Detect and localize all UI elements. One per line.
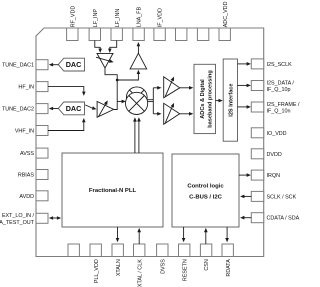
wire I2S to I2S_FRAME pin [238,105,251,109]
wire branch to VGA2 [153,112,161,116]
block Fractional-N PLL [62,153,163,227]
pin bottom PLL_VDD [90,244,101,283]
svg-text:DVDD: DVDD [267,152,282,158]
wire DAC1 to TUNE_DAC1 pin [49,63,59,67]
svg-text:I2S Interface: I2S Interface [229,83,235,116]
amp VGA2 Q-channel variable-gain [164,103,180,124]
pin left TUNE_DAC2 [2,104,48,114]
svg-text:Fractional-N PLL: Fractional-N PLL [89,188,137,194]
pin left RBIAS [18,170,48,180]
svg-text:RF_VDD: RF_VDD [70,6,76,28]
pin right SCLK / SCK [251,191,296,201]
DAC 1 block [58,58,84,71]
pin top LF_INP [89,9,100,41]
wire control to RDATA pin [225,227,229,242]
pin right IRQN [251,170,280,180]
svg-text:TUNE_DAC1: TUNE_DAC1 [2,63,34,69]
svg-text:IF_VDD: IF_VDD [158,8,164,27]
wire branch to VGA1 [153,86,161,90]
wire A2 output to node B [114,80,118,110]
svg-text:AVDD: AVDD [19,194,34,200]
wire VHF_IN to switch contact [48,118,86,131]
wire PLL to XTALN pin [116,227,120,242]
svg-text:CSN: CSN [204,259,210,270]
wire SCLK/SCK pin to control [240,195,251,199]
svg-text:DAC: DAC [66,104,82,113]
svg-text:HF_IN: HF_IN [18,85,34,91]
mixer X2 (Q-branch circle) [126,92,148,114]
pin bottom DVSS [157,244,168,274]
pin right IO_VDD [251,128,286,138]
wire control to RESETN pin [182,227,186,242]
svg-text:ADC_VDD: ADC_VDD [223,1,229,27]
pin left VHF_IN [15,126,48,136]
svg-text:baseband processing: baseband processing [208,70,214,128]
block Control logic C-BUS/I2C [172,154,239,227]
pin top unlabeled [197,28,208,41]
svg-text:PLL_VDD: PLL_VDD [94,259,100,283]
pin bottom XTAL / CLK [134,244,145,287]
wire node A to LNA input [117,70,140,80]
svg-text:I2S_FRAME /: I2S_FRAME / [267,102,300,108]
svg-text:Control logic: Control logic [187,183,224,189]
wire LNA output to LNA_FB pin [137,42,141,53]
block ADCs & Digital baseband processing [194,64,216,133]
svg-text:AVSS: AVSS [20,151,34,157]
pin bottom XTALN [112,244,123,276]
pin bottom RESETN [179,244,190,281]
wire CSN pin to control [204,228,208,244]
svg-text:ADCs & Digital: ADCs & Digital [200,79,206,119]
svg-text:TUNE_DAC2: TUNE_DAC2 [2,107,34,113]
switch S1 arm [85,105,96,110]
svg-text:C-BUS / I2C: C-BUS / I2C [189,195,222,201]
svg-text:RBIAS: RBIAS [18,172,35,178]
pin top LNA_FB [133,7,144,41]
pin right I2S_DATA / IF_Q_10p [251,80,294,93]
mixer X1 (I-branch circle) [126,87,147,108]
wire VGA1 to ADC block [180,86,194,90]
svg-text:LF_INP: LF_INP [93,9,99,28]
wire node B to mixer input [117,100,126,104]
wire CDATA/SDA pin to control [240,216,251,220]
wire PLL LO-Q to mixer [137,117,141,153]
pin right CDATA / SDA [251,213,299,223]
pin top LF_INN [111,9,122,41]
svg-text:DAC: DAC [66,60,82,69]
svg-text:I2S_DATA /: I2S_DATA / [267,80,295,86]
wire A1 output to node A [105,68,117,80]
pin right I2S_SCLK [251,59,292,69]
wire I2S to I2S_SCLK pin [238,62,251,66]
svg-text:IF_Q_10p: IF_Q_10p [267,87,291,93]
pin bottom RDATA [222,244,233,277]
pin right I2S_FRAME / IF_Q_10n [251,102,300,115]
amp A1 LF variable-gain (inverted triangle) [96,53,114,68]
amp LNA (triangle up) [130,53,147,69]
wire EXT_LO_IN to PLL (bidirectional) [49,216,61,220]
pin top unlabeled [176,28,187,41]
wire ADC block to I2S interface [216,99,223,103]
wire mixer Q output stub [148,101,154,103]
pin left EXT_LO_IN / A_TEST_OUT [0,213,48,226]
wire DAC2 to TUNE_DAC2 pin [49,107,59,111]
wire LF_INP to amp A1 [95,41,102,53]
svg-text:CDATA / SDA: CDATA / SDA [267,216,300,222]
pin top ADC_VDD [219,1,230,40]
wire HF_IN to switch contact [48,87,86,96]
IC package outline U1 [36,28,264,257]
DAC 2 block [58,102,84,115]
pin top RF_VDD [67,6,78,41]
svg-text:IF_Q_10n: IF_Q_10n [267,109,291,115]
pin top IF_VDD [154,8,165,40]
wire control to IRQN pin [239,173,251,177]
svg-text:I2S_SCLK: I2S_SCLK [267,62,293,68]
pin bottom unlabeled [68,244,79,257]
amp VGA1 I-channel variable-gain [164,77,180,98]
svg-text:RDATA: RDATA [226,259,232,277]
wire XTAL/CLK pin to PLL [137,228,141,244]
pin bottom CSN [200,244,211,271]
wire PLL LO-I to mixer [133,117,137,153]
svg-text:EXT_LO_IN /: EXT_LO_IN / [2,213,35,219]
wire mixer I output stub [147,99,153,101]
svg-text:XTALN: XTALN [116,259,122,276]
wire LF_INN to amp A1 [108,41,117,53]
svg-text:DVSS: DVSS [160,259,166,274]
svg-text:XTAL / CLK: XTAL / CLK [137,259,143,287]
svg-text:SCLK / SCK: SCLK / SCK [267,194,297,200]
pin left AVDD [19,191,48,201]
pin left AVSS [20,148,48,158]
svg-text:A_TEST_OUT: A_TEST_OUT [0,220,35,226]
svg-text:RESETN: RESETN [182,259,188,281]
svg-text:VHF_IN: VHF_IN [15,128,34,134]
svg-text:IRQN: IRQN [267,173,281,179]
node A junction dot [116,79,119,82]
pin right DVDD [251,149,282,159]
wire mixer output branch [152,88,154,114]
pin left TUNE_DAC1 [2,60,48,70]
svg-text:LNA_FB: LNA_FB [137,7,143,28]
svg-text:LF_INN: LF_INN [115,9,121,28]
pin left HF_IN [18,82,48,92]
wire I2S to I2S_DATA pin [238,84,251,88]
svg-text:IO_VDD: IO_VDD [267,131,287,137]
amp A2 HF/VHF variable-gain [97,100,114,117]
block I2S Interface [223,59,237,141]
wire VGA2 to ADC block [180,112,194,116]
